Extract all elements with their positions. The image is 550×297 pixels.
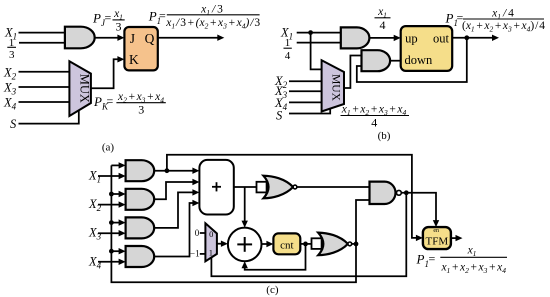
wire X1 (b) xyxy=(297,32,341,34)
wire X2 input xyxy=(98,204,120,206)
wire X2 to MUX (b) xyxy=(289,80,322,82)
svg-text:=: = xyxy=(429,252,436,266)
junction rail g2 xyxy=(109,192,114,197)
svg-text:1: 1 xyxy=(209,247,213,257)
wire mini MUX out to round adder xyxy=(217,243,222,245)
svg-text:MUX: MUX xyxy=(78,74,92,103)
svg-text:0: 0 xyxy=(209,229,213,239)
wire rail branch g2 xyxy=(111,193,119,195)
junction g1 out xyxy=(165,168,170,173)
wire AND out to J xyxy=(95,37,119,39)
svg-text:1: 1 xyxy=(285,37,291,49)
wire -1 input xyxy=(200,253,206,255)
svg-text:=: = xyxy=(159,9,166,23)
svg-text:(b): (b) xyxy=(378,130,391,142)
AND gate c3 xyxy=(126,217,155,238)
junction rail g4 xyxy=(109,249,114,254)
svg-text:3: 3 xyxy=(138,102,144,116)
NOR gate c1 xyxy=(263,176,293,199)
wire X3 input xyxy=(98,232,120,234)
wire round adder out to cnt xyxy=(262,243,268,245)
svg-text:en: en xyxy=(433,228,439,234)
adder box U3 xyxy=(199,160,233,215)
TFM box U6 xyxy=(423,227,451,249)
wire out (b) xyxy=(452,37,493,39)
wire cnt out xyxy=(300,243,311,245)
junction out (b) xyxy=(464,35,469,40)
wire X4 to MUX (b) xyxy=(289,101,322,103)
svg-text:x1 + x2 + x3 + x4: x1 + x2 + x3 + x4 xyxy=(440,262,506,276)
wire NOR1 out to NAND xyxy=(297,186,370,188)
svg-text:0: 0 xyxy=(195,228,200,238)
svg-text:S: S xyxy=(276,108,283,122)
svg-text:K: K xyxy=(129,52,139,67)
value 1/3 constant label xyxy=(7,37,16,61)
svg-text:MUX: MUX xyxy=(330,74,342,102)
wire X1 to AND (a) xyxy=(19,32,65,34)
label x1/4 xyxy=(375,6,391,32)
wire X3 to MUX (b) xyxy=(289,90,322,92)
wire 1/3 to AND (a) xyxy=(19,42,65,44)
svg-text:J: J xyxy=(130,31,135,46)
svg-text:(c): (c) xyxy=(266,284,279,296)
wire g3 out xyxy=(154,192,194,228)
label PJ = x1/3 xyxy=(92,8,125,34)
svg-text:(a): (a) xyxy=(102,142,115,154)
wire enable rail left + bottom + to NAND xyxy=(111,165,369,282)
wire NAND out to mini MUX select xyxy=(211,193,406,276)
junction rail g3 xyxy=(109,220,114,225)
wire X4 input xyxy=(98,261,120,263)
label PK formula xyxy=(93,91,166,116)
svg-text:=: = xyxy=(107,94,114,108)
AND gate b2 xyxy=(362,50,391,71)
svg-text:down: down xyxy=(405,53,434,67)
svg-text:3: 3 xyxy=(9,49,15,61)
wire cnt feedback to round adder xyxy=(245,244,306,270)
NOR gate c2 xyxy=(318,233,348,256)
wire AND b2 out to down xyxy=(390,60,401,62)
bus slice before NOR1 xyxy=(257,182,267,193)
wire MUX out to K xyxy=(91,59,119,88)
JK flip-flop U1 xyxy=(124,27,157,70)
wire branch down to round adder xyxy=(244,187,246,222)
svg-text:(x1 + x2 + x3 + x4) / 4: (x1 + x2 + x3 + x4) / 4 xyxy=(462,20,545,34)
wire X3 to MUX (a) xyxy=(19,86,70,88)
junction X1 (b) xyxy=(308,30,313,35)
svg-text:4: 4 xyxy=(371,116,377,130)
svg-text:X2: X2 xyxy=(3,65,17,81)
wire X2 to MUX (a) xyxy=(19,71,70,73)
wire TFM out xyxy=(451,237,457,239)
wire MUX b out to AND b2 xyxy=(344,56,362,89)
wire NAND out to TFM xyxy=(401,193,436,222)
svg-text:4: 4 xyxy=(380,18,386,32)
svg-text:TFM: TFM xyxy=(425,236,448,248)
wire g1 out to adder box xyxy=(154,170,194,172)
svg-text:P1: P1 xyxy=(416,252,429,270)
svg-text:X3: X3 xyxy=(3,81,17,97)
wire rail branch g3 xyxy=(111,222,119,224)
AND gate b1 xyxy=(341,27,370,48)
cnt box U5 xyxy=(273,233,300,254)
junction NAND out xyxy=(404,190,409,195)
AND gate c1 xyxy=(126,160,155,181)
wire rail branch g4 xyxy=(111,250,119,252)
svg-text:out: out xyxy=(433,31,450,45)
label P1 formula (a) xyxy=(148,4,261,31)
AND gate c4 xyxy=(126,246,155,267)
svg-text:x1: x1 xyxy=(467,245,477,259)
wire X1 drop to MUX (b) xyxy=(311,33,322,70)
svg-text:Q: Q xyxy=(145,31,155,46)
svg-text:−1: −1 xyxy=(190,249,200,259)
svg-text:x1 / 3 + (x2 + x3 + x4) / 3: x1 / 3 + (x2 + x3 + x4) / 3 xyxy=(165,17,260,31)
AND gate c2 xyxy=(126,189,155,210)
svg-text:S: S xyxy=(10,117,17,131)
svg-text:3: 3 xyxy=(116,20,122,34)
wire S to MUX (a) xyxy=(19,110,79,124)
wire S to MUX (b) xyxy=(289,108,330,113)
junction NOR2 out xyxy=(354,242,359,247)
wire X4 to MUX (a) xyxy=(19,101,70,103)
wire X1 input xyxy=(98,175,120,177)
up/down counter U2 xyxy=(401,26,453,71)
wire g2 out xyxy=(154,182,194,199)
bus slice before NOR2 xyxy=(312,238,322,249)
wire 1/4 (b) xyxy=(297,42,341,44)
value 1/4 constant label xyxy=(284,37,292,62)
mini MUX 0/-1 xyxy=(205,223,217,261)
svg-text:=: = xyxy=(105,11,112,25)
AND gate (a) xyxy=(65,27,95,49)
MUX (b) xyxy=(322,60,344,111)
wire AND b1 out to up xyxy=(369,37,395,39)
wire Q output (a) xyxy=(158,37,219,39)
wire adder box out xyxy=(234,186,257,188)
svg-text:up: up xyxy=(405,31,418,45)
svg-text:4: 4 xyxy=(285,50,291,62)
junction cnt out xyxy=(303,242,308,247)
NAND gate c xyxy=(370,182,396,204)
label sum/4 under MUX (b) xyxy=(341,104,410,130)
wire feedback out to AND b2 xyxy=(357,38,467,82)
MUX (a) xyxy=(69,61,91,116)
svg-text:cnt: cnt xyxy=(280,239,293,251)
wire enable top rail to TFM en xyxy=(167,155,417,238)
svg-text:X4: X4 xyxy=(3,96,17,112)
wire rail branch g1 xyxy=(111,164,119,166)
wire 0 input xyxy=(200,232,206,234)
label P1 formula (c) xyxy=(416,245,508,276)
wire g4 out xyxy=(154,203,194,257)
wire NOR2 out xyxy=(352,243,356,245)
label P1 formula (b) xyxy=(445,8,546,34)
round adder U4 xyxy=(228,228,262,262)
